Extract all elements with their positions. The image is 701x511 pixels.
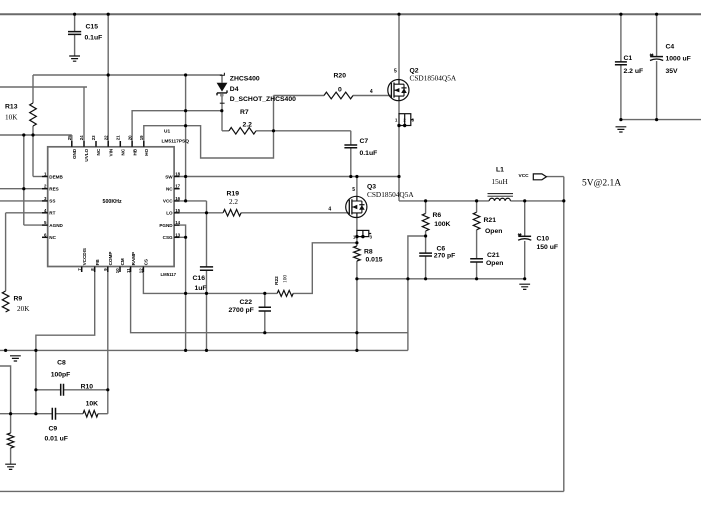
junction at 185.6,200.9 [184,199,187,202]
resistor R22 [277,290,293,296]
svg-text:20K: 20K [17,305,30,313]
svg-text:21: 21 [116,135,121,140]
capacitor C15 [68,32,81,35]
junction at 656.6,14.2 [655,13,658,16]
svg-text:10K: 10K [5,114,18,122]
pin 22 VIN stub [107,141,109,147]
wire R19 to Q3 gate [241,212,349,214]
svg-text:22: 22 [103,135,108,140]
junction at 206.5,212.8 [205,211,208,214]
svg-text:0: 0 [338,87,342,94]
wire R13 bottom to DEMB pin 1 [32,126,34,177]
wire C7 top lead [350,131,352,145]
wire R21 to C21 [476,230,478,259]
junction at 23.8,188.7 [22,187,25,190]
wire SS from left edge [0,200,42,202]
wire HB riser and horizontal [132,111,222,141]
pin 8 FB stub [94,267,96,273]
junction at 108.2,75 [107,73,110,76]
junction at 356.9,332.7 [355,331,358,334]
svg-text:ZHCS400: ZHCS400 [230,76,260,83]
junction at 356.9,176.5 [355,175,358,178]
wire sense column to analog rail [356,279,358,351]
wire Q3 drain to SW [356,177,358,197]
junction at 264.8,332.7 [263,331,266,334]
svg-text:14: 14 [175,220,180,225]
pin 5 AGND stub [42,224,48,226]
wire R20 to Q2 gate [353,95,391,97]
wire AGND riser [23,135,25,225]
capacitor C8 [61,384,64,396]
wire C8 left lead [36,389,60,391]
junction at 425.6,236 [424,234,427,237]
svg-text:COMP: COMP [108,252,113,266]
capacitor C22 [259,307,271,311]
pin 11 RAMP stub [130,267,132,273]
wire SW node to L1 [399,200,489,202]
svg-text:C1: C1 [624,55,633,62]
wire R6 C6 node link [408,236,426,350]
resistor R19 [223,210,241,217]
wire C22 top lead [264,293,266,307]
junction at 399,176.5 [397,175,400,178]
svg-text:15: 15 [175,208,180,213]
wire R7 right to C7 [256,130,351,132]
svg-text:2.2: 2.2 [229,198,238,206]
capacitor C7 [344,145,357,148]
wire UVLO from left edge [0,86,87,88]
pin 25 GND stub [71,141,73,147]
svg-text:C8: C8 [57,359,66,366]
svg-text:13: 13 [175,232,180,237]
wire C1 top lead [620,14,622,62]
pin 3 SS stub [42,200,48,202]
svg-text:C7: C7 [360,138,369,145]
svg-text:UVLO: UVLO [84,148,89,161]
pin 14 PGND stub [174,224,180,226]
resistor R13 [30,103,37,126]
wire VCC output column [563,177,565,492]
pin 24 UVLO stub [83,141,85,147]
svg-text:24: 24 [79,135,84,140]
svg-text:10K: 10K [86,401,99,408]
svg-text:Open: Open [485,228,502,235]
pin 13 CSG stub [174,236,180,238]
junction at 206.5,293.4 [205,292,208,295]
pin 20 HB stub [131,141,133,147]
svg-text:1000 uF: 1000 uF [666,56,691,63]
junction at 185.6,237.3 [184,236,187,239]
resistor R8 [354,246,361,261]
junction at 350.8,176.5 [349,175,352,178]
junction at 356.9,350.4 [355,349,358,352]
svg-text:4: 4 [328,206,331,212]
svg-text:R7: R7 [240,109,249,116]
wire R6 to C6 [425,231,427,253]
wire CS riser and run [143,272,277,293]
svg-text:1uF: 1uF [195,285,207,292]
svg-text:20: 20 [127,135,132,140]
svg-text:RT: RT [49,211,55,216]
resistor R9 [2,291,9,312]
svg-text:12: 12 [139,268,144,273]
svg-text:NC: NC [96,148,101,155]
svg-text:C4: C4 [666,44,675,51]
wire R6 top lead [425,201,427,214]
wire C4 top lead [656,14,658,57]
wire C15 bottom lead [74,34,76,56]
diode D4 schottky [220,73,225,76]
net-tie Q3 source pins [357,230,369,236]
junction at 35.9,389.8 [34,388,37,391]
junction at 108.2,14.2 [107,13,110,16]
junction at 5.6,350.4 [4,349,7,352]
svg-text:18: 18 [175,172,180,177]
junction at 185.6,293.4 [184,292,187,295]
svg-text:10: 10 [115,268,120,273]
svg-text:C16: C16 [193,275,206,282]
junction at 221.8,110.7 [220,109,223,112]
transistor Q3 CSD18504Q5A [346,196,367,217]
junction at 476.6,278.8 [475,277,478,280]
pin 15 LO stub [174,212,180,214]
svg-text:R19: R19 [227,191,240,198]
wire node riser x186 [185,75,187,201]
capacitor C21 [470,259,483,262]
svg-text:R21: R21 [484,217,497,224]
svg-text:19: 19 [139,135,144,140]
junction at 185.6,350.4 [184,349,187,352]
svg-text:D4: D4 [230,86,239,93]
junction at 206.5,350.4 [205,349,208,352]
wire RAMP riser and run [131,272,408,333]
svg-text:LO: LO [166,211,173,216]
svg-text:2.2 uF: 2.2 uF [624,68,644,75]
svg-text:25: 25 [67,135,72,140]
svg-text:Open: Open [486,260,503,267]
junction at 35.9,413.7 [34,412,37,415]
svg-text:R8: R8 [364,249,373,256]
wire C22 bottom lead [264,311,266,333]
svg-text:23: 23 [91,135,96,140]
svg-text:C9: C9 [49,426,58,433]
svg-text:HB: HB [132,148,137,155]
wire Q2 tie to SW corner and down [398,126,400,201]
capacitor C4 polarized [650,56,663,58]
svg-text:2.2: 2.2 [243,122,253,129]
svg-text:GND: GND [72,148,77,159]
svg-text:0.01 uF: 0.01 uF [45,436,68,443]
junction at 10.6,413.7 [9,412,12,415]
svg-text:CM: CM [120,258,125,265]
svg-text:100: 100 [283,275,289,283]
svg-text:150 uF: 150 uF [537,244,559,251]
junction at 74.6,14.2 [73,13,76,16]
capacitor C6 [419,253,432,256]
svg-text:15uH: 15uH [492,177,509,186]
wire C15 top lead [74,14,76,31]
junction at 656.6,119.6 [655,118,658,121]
resistor R20 [324,92,353,99]
svg-text:LM5117: LM5117 [161,272,177,277]
wire D4 cathode to R7 [221,95,223,131]
junction at 524.7,278.8 [523,277,526,280]
svg-text:100pF: 100pF [51,371,71,378]
svg-text:L1: L1 [496,167,504,174]
wire RES from left edge [0,188,42,190]
wire PGND jog to CSG [180,225,186,237]
ground below C10 [519,284,530,289]
svg-text:RAMP: RAMP [131,252,136,266]
wire Q2 source to tie [398,101,400,114]
capacitor C16 [200,267,213,270]
svg-text:C6: C6 [437,246,446,253]
svg-text:CS: CS [144,259,149,265]
svg-text:SW: SW [165,174,173,179]
wire C8 right lead [64,389,108,391]
capacitor C10 polarized [518,235,531,237]
wire VIN riser to pin 22 [107,14,109,141]
svg-text:17: 17 [175,184,180,189]
svg-text:0.1uF: 0.1uF [360,150,378,157]
wire C10 top lead [524,201,526,236]
svg-text:5V@2.1A: 5V@2.1A [582,179,621,189]
wire VIN node horizontal [33,74,222,76]
junction at 33,135 [31,133,34,136]
junction at 273.5,130.8 [272,129,275,132]
wire C4 bottom lead [656,61,658,120]
ground on analog rail [10,356,21,361]
wire R20 left lead [274,95,325,97]
junction at 35.9,350.4 [34,349,37,352]
svg-text:CSG: CSG [163,235,173,240]
resistor R21 [473,212,480,230]
pin 7 VCCDIS stub [81,267,83,273]
svg-text:0.1uF: 0.1uF [85,35,103,42]
wire C9 R10 run [0,413,52,415]
pin 10 CM stub [119,267,121,273]
svg-text:NC: NC [121,148,126,155]
inductor L1 [489,198,510,201]
wire RT to R9 [6,212,42,214]
wire FB riser [36,272,95,414]
junction at 185.6,176.5 [184,175,187,178]
power flag VCC [533,174,546,180]
net-tie Q2 source pins [399,114,411,126]
wire L1 to VCC column [510,200,563,202]
pin 1 DEMB stub [42,176,48,178]
wire C10 bottom lead [524,241,526,279]
wire left resistor to ground [10,448,12,464]
svg-text:270 pF: 270 pF [434,253,456,260]
wire C16 bottom to rails [206,270,208,350]
wire R8 bottom to gnd rail [356,261,358,279]
svg-text:5: 5 [352,187,355,193]
svg-text:AGND: AGND [49,223,63,228]
op-amp U1 LM5117PSQ body [48,147,174,267]
ground below C15 [69,56,80,61]
wire VIN top rail [0,13,701,15]
junction at 524.7,200.9 [523,199,526,202]
junction at 425.6,200.9 [424,199,427,202]
svg-text:R9: R9 [14,296,23,303]
resistor R10 [83,410,98,417]
wire C6 bottom lead [425,256,427,279]
wire R21 top lead [476,201,478,212]
junction at 563.8,200.9 [562,199,565,202]
wire COMP riser [107,272,109,414]
svg-text:VIN: VIN [108,148,113,156]
svg-text:R22: R22 [274,276,280,285]
resistor R7 [229,128,256,135]
wire LO to R19 [180,212,224,214]
junction at 185.6,75 [184,73,187,76]
junction at 185.6,110.7 [184,109,187,112]
svg-text:FB: FB [95,259,100,266]
svg-text:LM5117PSQ: LM5117PSQ [162,139,190,145]
pin 16 VCC stub [174,200,180,202]
svg-text:16: 16 [175,196,180,201]
wire HO loop to R7 right [144,96,274,159]
junction at 107.8,389.8 [106,388,109,391]
svg-text:R6: R6 [433,212,442,219]
junction at 476.6,200.9 [475,199,478,202]
wire Q3 tie to R8 [356,237,358,246]
wire VCC pin to C16 [180,200,207,202]
pin 12 CS stub [142,267,144,273]
pin 6 NC stub [42,236,48,238]
junction at 620.9,14.2 [619,13,622,16]
resistor R6 [422,213,429,231]
pin 4 RT stub [42,212,48,214]
junction at 620.9,119.6 [619,118,622,121]
svg-text:VCC: VCC [163,199,173,204]
svg-text:11: 11 [126,268,131,273]
junction at 356.9,278.8 [355,277,358,280]
svg-text:VCCDIS: VCCDIS [82,248,87,265]
svg-text:C10: C10 [537,236,550,243]
wire D4 anode lead [221,75,223,83]
pin 17 NC stub [174,188,180,190]
wire Q3 source to tie [356,218,358,231]
svg-text:R10: R10 [81,384,94,391]
ground below lower left resistor [5,464,16,469]
svg-text:C15: C15 [86,24,99,31]
svg-text:0.015: 0.015 [366,257,383,264]
svg-text:C21: C21 [487,252,500,259]
junction at 356.9,242.8 [355,241,358,244]
svg-text:DEMB: DEMB [49,174,63,179]
pin 2 RES stub [42,188,48,190]
wire Q2 drain from rail [398,14,400,79]
wire CSG to ground rails [180,236,186,238]
transistor Q2 CSD18504Q5A [388,80,409,101]
svg-text:R20: R20 [334,73,347,80]
svg-text:HO: HO [144,148,149,155]
pin 9 COMP stub [107,267,109,273]
svg-text:RES: RES [49,187,58,192]
svg-text:NC: NC [49,235,56,240]
svg-text:NC: NC [166,187,173,192]
svg-text:100K: 100K [434,221,450,228]
junction at 23.8,135 [22,133,25,136]
wire C1 bottom lead [620,65,622,120]
wire R13 top lead [32,75,34,103]
svg-text:35V: 35V [666,68,679,75]
svg-text:CSD18504Q5A: CSD18504Q5A [367,190,414,199]
resistor lower left [7,433,14,448]
wire left resistor branch [0,366,11,433]
svg-text:500KHz: 500KHz [103,199,122,205]
svg-text:U1: U1 [164,129,170,135]
svg-text:C22: C22 [240,299,253,306]
svg-text:5: 5 [394,69,397,75]
wire C21 bottom lead [476,262,478,279]
svg-text:R13: R13 [5,104,18,111]
junction at 399,14.2 [397,13,400,16]
svg-text:SS: SS [49,199,55,204]
pin 18 SW stub [174,176,180,178]
junction at 425.6,278.8 [424,277,427,280]
wire R22 right to sense [293,243,357,294]
svg-text:4: 4 [370,89,373,95]
wire R7 left lead [222,130,229,132]
svg-text:2700 pF: 2700 pF [229,307,254,314]
svg-text:VCC: VCC [519,173,530,179]
pin 23 NC stub [95,141,97,147]
wire VCC flag lead [546,176,563,178]
wire AGND-GND jog [0,134,72,136]
wire input return run [621,119,701,121]
svg-text:D_SCHOT_ZHCS400: D_SCHOT_ZHCS400 [230,96,296,103]
wire output bottom run [0,490,564,492]
wire C7 bottom to SW [350,148,352,177]
junction at 407.9,278.8 [406,277,409,280]
pin 19 HO stub [143,141,145,147]
wire analog ground rail [0,349,408,351]
junction at 185.6,125.7 [184,124,187,127]
wire SW pin to node [180,176,399,178]
ground below C1 C4 [616,127,627,132]
junction at 264.8,293.4 [263,292,266,295]
capacitor C9 [52,408,55,420]
wire power ground rail [357,278,525,280]
svg-text:CSD18504Q5A: CSD18504Q5A [410,74,457,83]
capacitor C1 [615,62,627,65]
svg-text:PGND: PGND [159,223,173,228]
pin 21 NC stub [119,141,121,147]
